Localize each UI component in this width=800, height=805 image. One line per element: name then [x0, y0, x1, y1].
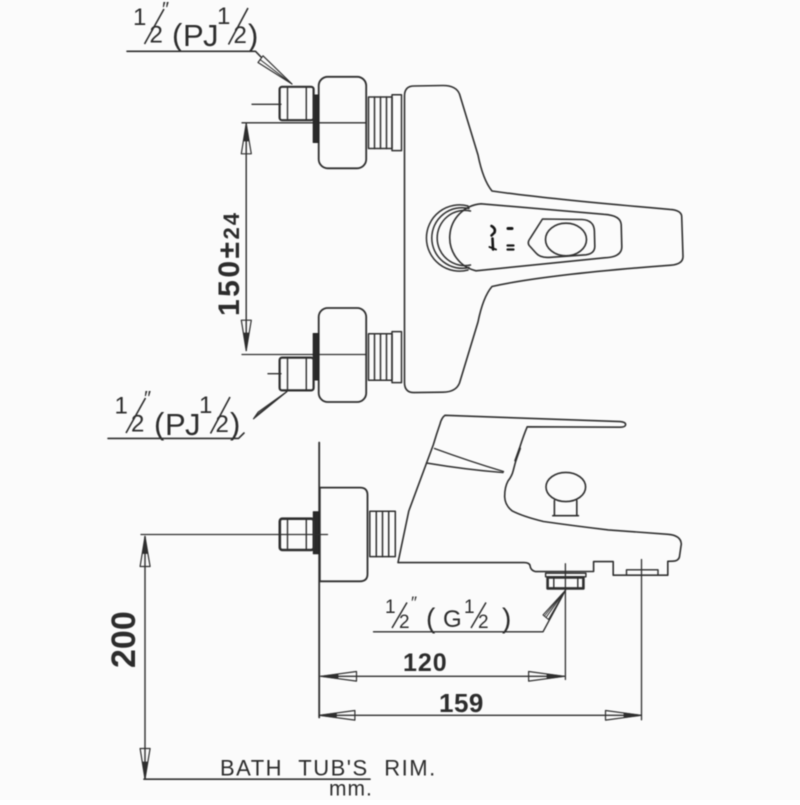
centerline stub top nut: [252, 103, 281, 105]
dimension 150 bottom arrowhead: [241, 320, 251, 350]
nut centerline (side) + 200 extension: [141, 534, 328, 536]
svg-text:″: ″: [162, 0, 169, 21]
neck edge double mark: [516, 449, 520, 461]
washer (side, dark): [313, 512, 319, 554]
centerline stub bottom nut: [268, 373, 281, 375]
svg-text:1: 1: [133, 4, 146, 31]
ribbed adapter top (front): [369, 95, 402, 151]
dim 159 left arrowhead: [319, 711, 355, 721]
leader line bottom PJ label: [108, 433, 244, 438]
ribbed adapter bottom (front): [369, 332, 402, 383]
svg-text:159: 159: [439, 688, 484, 718]
extension line bottom fitting axis: [242, 354, 366, 356]
dim 120 right arrowhead: [529, 672, 565, 682]
leader G label: [374, 590, 566, 632]
button circle on lever: [546, 223, 587, 256]
lever stadium face (front): [450, 204, 622, 271]
escutcheon top (front): [319, 77, 367, 169]
escutcheon (side): [320, 488, 368, 582]
diverter stem: [554, 501, 576, 516]
svg-text:P: P: [165, 407, 186, 442]
dimension 200 top arrowhead: [140, 537, 150, 567]
svg-text:mm.: mm.: [329, 778, 373, 801]
dimension 150±24 line: [245, 124, 247, 351]
hex nut bottom (front): [280, 358, 314, 391]
dimension 120 line: [321, 675, 565, 677]
bracket inner notch: [627, 570, 659, 575]
svg-text:P: P: [183, 18, 204, 53]
dimension 159 line: [319, 714, 641, 716]
svg-text:1: 1: [464, 597, 475, 618]
washer top (dark): [313, 95, 318, 143]
svg-text:): ): [248, 18, 258, 53]
dome top line under lever: [435, 449, 504, 472]
svg-text:200: 200: [105, 611, 143, 668]
svg-text:(: (: [154, 406, 165, 441]
outlet nut (bold): [548, 577, 584, 588]
svg-text:1: 1: [385, 597, 396, 618]
svg-text:″: ″: [411, 593, 417, 612]
dim 120 left arrowhead: [321, 672, 357, 682]
svg-text:(: (: [172, 17, 183, 52]
svg-text:G: G: [443, 606, 462, 633]
dimension 200 line: [144, 537, 146, 780]
dim 159 right arrowhead: [606, 711, 642, 721]
svg-text:2: 2: [478, 612, 489, 633]
svg-text:2: 2: [234, 22, 247, 49]
svg-text:): ): [502, 603, 511, 634]
body outline front view: [405, 86, 684, 393]
svg-text:2: 2: [150, 22, 163, 49]
label G half text: [385, 593, 511, 634]
lever left arcs (front): [426, 205, 468, 271]
bath tub rim line: [144, 778, 370, 780]
leader arrowhead top PJ: [258, 56, 292, 84]
svg-text:1: 1: [199, 392, 212, 419]
svg-text:(: (: [426, 603, 436, 634]
ribbed adapter (side): [370, 511, 396, 556]
svg-text:1: 1: [217, 3, 230, 30]
extension line right end (159): [641, 560, 643, 720]
svg-text:2: 2: [399, 612, 410, 633]
dimension 200 bottom arrowhead: [140, 749, 150, 780]
escutcheon bottom (front): [319, 308, 367, 402]
label top PJ text: [133, 0, 258, 53]
dimension 150 top arrowhead: [241, 124, 251, 154]
outlet flange: [546, 573, 586, 577]
svg-text:″: ″: [144, 388, 151, 410]
svg-text:2: 2: [216, 411, 229, 438]
svg-text:150±24: 150±24: [213, 211, 246, 316]
label bottom PJ text: [115, 388, 241, 442]
svg-text:2: 2: [131, 411, 144, 438]
body top line under lever: [427, 463, 504, 473]
extension line outlet (120): [564, 564, 566, 680]
diverter ball: [546, 472, 586, 501]
svg-text:): ): [230, 406, 240, 441]
leader arrowhead bottom PJ: [254, 392, 288, 419]
hex nut (side): [280, 519, 314, 550]
extension line top fitting axis: [242, 122, 366, 124]
svg-text:1: 1: [115, 393, 128, 420]
washer bottom (dark): [313, 334, 318, 381]
badge outline on lever: [528, 219, 594, 257]
leader arrowhead G label: [543, 590, 566, 619]
wall line: [318, 443, 320, 718]
small logo marks on lever: [490, 226, 514, 250]
leader line top PJ label: [127, 51, 261, 57]
svg-text:120: 120: [403, 649, 448, 677]
hex nut top (front): [280, 87, 314, 120]
body outline (side view): [398, 415, 681, 575]
